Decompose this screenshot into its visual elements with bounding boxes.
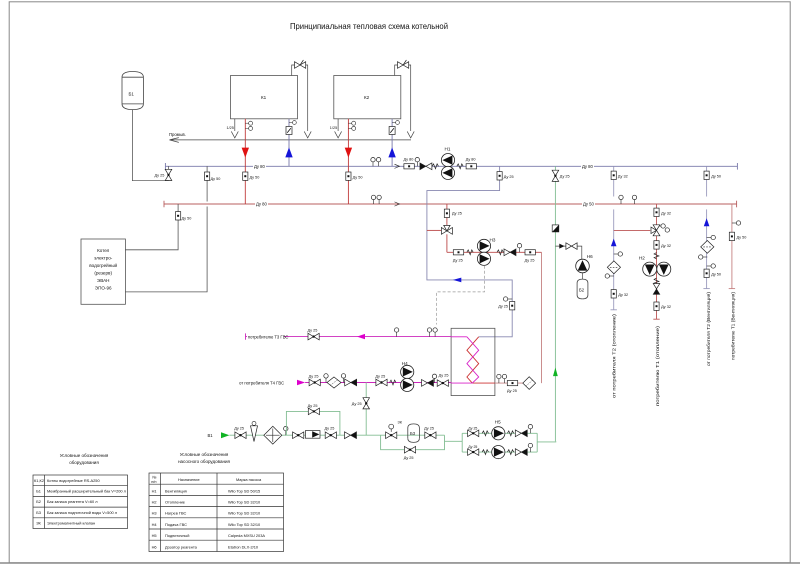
svg-text:Н6: Н6 (587, 254, 593, 259)
svg-text:Б1: Б1 (129, 92, 135, 97)
svg-text:Н3: Н3 (490, 238, 496, 243)
svg-text:Ду 25: Ду 25 (375, 374, 385, 378)
svg-text:от потребителя Т2 (отопление): от потребителя Т2 (отопление) (612, 313, 617, 398)
svg-text:Ду 32: Ду 32 (618, 174, 628, 178)
svg-text:Подпиточный: Подпиточный (165, 533, 189, 538)
svg-text:электро-: электро- (94, 256, 113, 261)
svg-text:Б3: Б3 (410, 431, 416, 436)
svg-text:1/25: 1/25 (227, 126, 234, 130)
svg-text:Ду 25: Ду 25 (452, 212, 462, 216)
svg-text:Электромагнитный клапан: Электромагнитный клапан (47, 521, 95, 526)
svg-text:Котел: Котел (97, 248, 110, 253)
svg-text:Промыв.: Промыв. (169, 132, 186, 137)
svg-text:Ду 25: Ду 25 (504, 175, 514, 179)
svg-text:ЗК: ЗК (398, 420, 403, 424)
svg-text:Ду 80: Ду 80 (404, 157, 414, 161)
svg-text:Отопление: Отопление (165, 500, 185, 505)
svg-text:Ду 25: Ду 25 (424, 427, 434, 431)
svg-text:Ду 32: Ду 32 (661, 211, 671, 215)
svg-text:В1: В1 (208, 433, 214, 438)
svg-text:Ду 25: Ду 25 (468, 426, 477, 430)
svg-text:от потребителя Т2 (Вентиляция): от потребителя Т2 (Вентиляция) (706, 291, 711, 366)
svg-text:Ду 80: Ду 80 (256, 202, 268, 207)
svg-text:Ду 25: Ду 25 (525, 259, 535, 263)
svg-text:Б2: Б2 (36, 499, 41, 504)
svg-text:Ду 25: Ду 25 (352, 402, 362, 406)
svg-text:Ду 50: Ду 50 (250, 175, 260, 179)
svg-text:Бак запаса подпиточной воды V=: Бак запаса подпиточной воды V=500 л (47, 510, 117, 515)
svg-text:потребителю Т1 (Вентиляция): потребителю Т1 (Вентиляция) (731, 291, 736, 360)
svg-text:водогрейный: водогрейный (89, 262, 117, 268)
svg-text:Марка насоса: Марка насоса (236, 477, 262, 482)
svg-text:Ду 25: Ду 25 (404, 456, 414, 460)
svg-text:потребителю Т3 ГВС: потребителю Т3 ГВС (248, 334, 289, 339)
svg-text:Дозатор реагента: Дозатор реагента (165, 544, 198, 549)
svg-text:Ду 25: Ду 25 (308, 329, 318, 333)
svg-text:Ду 25: Ду 25 (439, 374, 449, 378)
svg-text:Ду 25: Ду 25 (507, 389, 517, 393)
svg-text:Ду 80: Ду 80 (582, 164, 594, 169)
svg-text:Ду 50: Ду 50 (353, 175, 363, 179)
svg-text:Wilo Top SD 50/15: Wilo Top SD 50/15 (228, 488, 260, 493)
svg-text:Ду 50: Ду 50 (737, 235, 747, 239)
svg-text:Ду 25: Ду 25 (325, 427, 335, 431)
svg-text:Ду 25: Ду 25 (468, 445, 477, 449)
svg-text:К2: К2 (364, 95, 370, 100)
svg-text:Ду 50: Ду 50 (182, 217, 192, 221)
svg-text:К1: К1 (261, 95, 267, 100)
svg-text:Wilo Top SD 32/10: Wilo Top SD 32/10 (228, 522, 261, 527)
svg-text:Ду 25: Ду 25 (498, 305, 508, 309)
svg-text:Wilo Top SD 32/10: Wilo Top SD 32/10 (228, 500, 261, 505)
svg-text:Ду 32: Ду 32 (661, 244, 671, 248)
svg-text:Принципиальная тепловая схема: Принципиальная тепловая схема котельной (290, 22, 448, 31)
svg-text:оборудования: оборудования (69, 460, 99, 465)
svg-text:Ду 32: Ду 32 (618, 293, 628, 297)
svg-text:Ду 80: Ду 80 (466, 157, 476, 161)
svg-text:Бак запаса реагента V=60 л: Бак запаса реагента V=60 л (47, 499, 98, 504)
svg-text:Ду 25: Ду 25 (309, 374, 319, 378)
svg-text:Ду 25: Ду 25 (234, 427, 244, 431)
svg-text:Н5: Н5 (152, 533, 157, 538)
svg-text:Ду 25: Ду 25 (308, 404, 318, 408)
svg-text:Н5: Н5 (495, 419, 501, 424)
svg-text:ЗК: ЗК (36, 521, 41, 526)
svg-text:потребителю Т1 (отопление): потребителю Т1 (отопление) (655, 325, 660, 406)
svg-text:Ду 25: Ду 25 (155, 174, 165, 178)
svg-text:Н6: Н6 (152, 544, 157, 549)
svg-text:Н1: Н1 (152, 488, 157, 493)
svg-text:Calpeda MXSU 203A: Calpeda MXSU 203A (228, 533, 265, 538)
svg-text:Б3: Б3 (36, 510, 41, 515)
svg-text:(резерв): (резерв) (94, 271, 112, 276)
svg-text:Мембранный расширительный бак: Мембранный расширительный бак V=200 л (47, 489, 126, 494)
svg-text:Вентиляция: Вентиляция (165, 488, 187, 493)
svg-text:Н3: Н3 (152, 511, 157, 516)
svg-text:Б2: Б2 (579, 288, 585, 293)
svg-text:Ду 25: Ду 25 (560, 175, 570, 179)
svg-text:Н2: Н2 (639, 255, 645, 260)
svg-text:Ду 50: Ду 50 (711, 174, 721, 178)
svg-text:Нагрев ГВС: Нагрев ГВС (165, 511, 186, 516)
svg-text:Н1: Н1 (445, 147, 451, 152)
svg-text:Ду 32: Ду 32 (661, 305, 671, 309)
svg-text:насосного оборудования: насосного оборудования (178, 459, 230, 464)
svg-text:Н4: Н4 (402, 361, 408, 366)
svg-text:ЭВАН: ЭВАН (97, 278, 110, 283)
svg-text:Котлы водогрейные RS-А250: Котлы водогрейные RS-А250 (47, 478, 100, 483)
svg-text:К1,К2: К1,К2 (34, 478, 44, 483)
svg-text:Ду 50: Ду 50 (711, 272, 721, 276)
svg-text:Н4: Н4 (152, 522, 158, 527)
svg-text:1/25: 1/25 (330, 126, 337, 130)
svg-text:Ду 50: Ду 50 (583, 202, 595, 207)
svg-text:Условные обозначения: Условные обозначения (180, 452, 229, 457)
svg-text:п/п: п/п (151, 479, 156, 484)
svg-text:ЭПО-96: ЭПО-96 (95, 286, 112, 291)
svg-text:Ду 25: Ду 25 (453, 259, 463, 263)
svg-text:от потребителя Т4 ГВС: от потребителя Т4 ГВС (239, 380, 284, 385)
svg-text:Ду 80: Ду 80 (254, 164, 266, 169)
svg-text:Н2: Н2 (152, 500, 157, 505)
svg-text:Etatron DLX-2/10: Etatron DLX-2/10 (228, 544, 259, 549)
svg-text:Условные обозначения: Условные обозначения (60, 453, 109, 458)
svg-text:Ду 50: Ду 50 (211, 177, 221, 181)
svg-text:Б1: Б1 (36, 489, 41, 494)
svg-text:Назначение: Назначение (178, 477, 200, 482)
svg-text:Подача ГВС: Подача ГВС (165, 522, 187, 527)
svg-text:Wilo Top SD 32/10: Wilo Top SD 32/10 (228, 511, 261, 516)
